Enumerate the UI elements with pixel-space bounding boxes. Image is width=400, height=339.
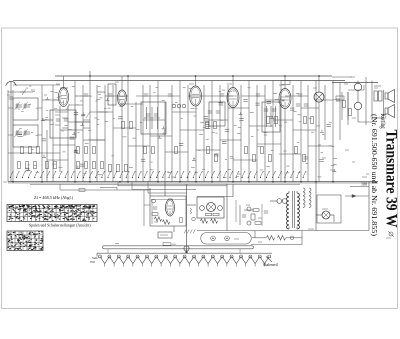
svg-text:Spulen und Schalterstellungen: Spulen und Schalterstellungen (Ansicht) <box>29 224 91 228</box>
svg-text:Skalenseil: Skalenseil <box>263 263 278 267</box>
svg-text:Transmare 39 W: Transmare 39 W <box>383 130 400 228</box>
svg-text:(Nr. 691.500-650 und ab Nr. 69: (Nr. 691.500-650 und ab Nr. 691.855) <box>370 114 377 236</box>
svg-text:Körting: Körting <box>379 114 386 129</box>
svg-text:100: 100 <box>361 182 367 187</box>
svg-text:zug: zug <box>90 260 95 264</box>
